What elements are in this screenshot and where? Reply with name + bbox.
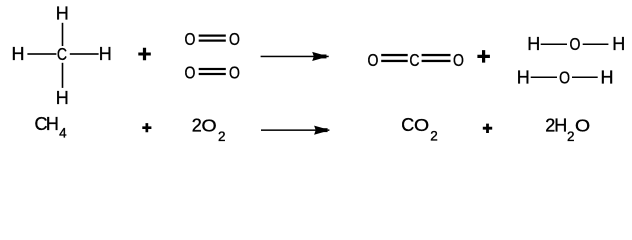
atom C center xyxy=(57,44,67,64)
double bond line 1 xyxy=(199,68,226,70)
plus sign bottom-left xyxy=(142,123,151,132)
atom O xyxy=(559,68,570,88)
reaction arrow bottom xyxy=(261,126,329,135)
svg-text:O: O xyxy=(201,115,216,135)
svg-text:H: H xyxy=(612,34,625,54)
svg-text:O: O xyxy=(453,50,464,70)
double bond line 2 xyxy=(199,40,226,42)
reaction arrow top xyxy=(261,52,329,61)
bond C-H top (vertical) xyxy=(62,23,64,46)
plus sign top-right xyxy=(477,50,490,63)
svg-text:H: H xyxy=(99,44,112,64)
svg-text:2: 2 xyxy=(567,129,575,144)
svg-text:C: C xyxy=(401,115,414,135)
bond H-O xyxy=(541,44,567,46)
svg-text:2: 2 xyxy=(192,116,202,136)
double bond line 2 xyxy=(199,73,226,75)
svg-text:C: C xyxy=(57,44,67,64)
svg-text:H: H xyxy=(56,88,69,108)
svg-text:4: 4 xyxy=(59,125,67,140)
bond O-H xyxy=(583,44,609,46)
svg-text:O: O xyxy=(229,63,240,83)
bond C-H bottom (vertical) xyxy=(62,63,64,88)
plus sign top-left xyxy=(138,48,151,61)
atom O left xyxy=(368,50,379,70)
svg-text:2: 2 xyxy=(218,129,226,144)
svg-text:H: H xyxy=(56,3,69,23)
atom O xyxy=(229,63,240,83)
svg-text:O: O xyxy=(368,50,379,70)
svg-text:H: H xyxy=(601,67,614,87)
bond O-H xyxy=(572,77,598,79)
svg-text:H: H xyxy=(517,67,530,87)
bond H-O xyxy=(531,77,557,79)
double bond left line 1 xyxy=(381,54,408,56)
svg-text:O: O xyxy=(569,35,580,55)
svg-text:H: H xyxy=(527,34,540,54)
atom O right xyxy=(453,50,464,70)
bond C-H right (horizontal) xyxy=(70,53,99,55)
double bond right line 1 xyxy=(422,54,451,56)
svg-text:O: O xyxy=(185,63,196,83)
double bond line 1 xyxy=(199,35,226,37)
svg-text:H: H xyxy=(12,44,25,64)
svg-text:O: O xyxy=(414,115,429,135)
svg-text:H: H xyxy=(46,114,59,134)
svg-text:O: O xyxy=(575,115,590,135)
svg-text:O: O xyxy=(229,30,240,50)
atom C xyxy=(409,50,419,70)
svg-text:C: C xyxy=(409,50,419,70)
atom O xyxy=(185,30,196,50)
double bond right line 2 xyxy=(422,60,451,62)
svg-text:O: O xyxy=(559,68,570,88)
bond H-C left (horizontal) xyxy=(27,53,56,55)
svg-text:2: 2 xyxy=(430,128,438,143)
svg-text:H: H xyxy=(554,116,567,136)
double bond left line 2 xyxy=(381,60,408,62)
atom O xyxy=(185,63,196,83)
plus sign bottom-right xyxy=(483,124,492,133)
atom O xyxy=(569,35,580,55)
svg-text:O: O xyxy=(185,30,196,50)
atom O xyxy=(229,30,240,50)
